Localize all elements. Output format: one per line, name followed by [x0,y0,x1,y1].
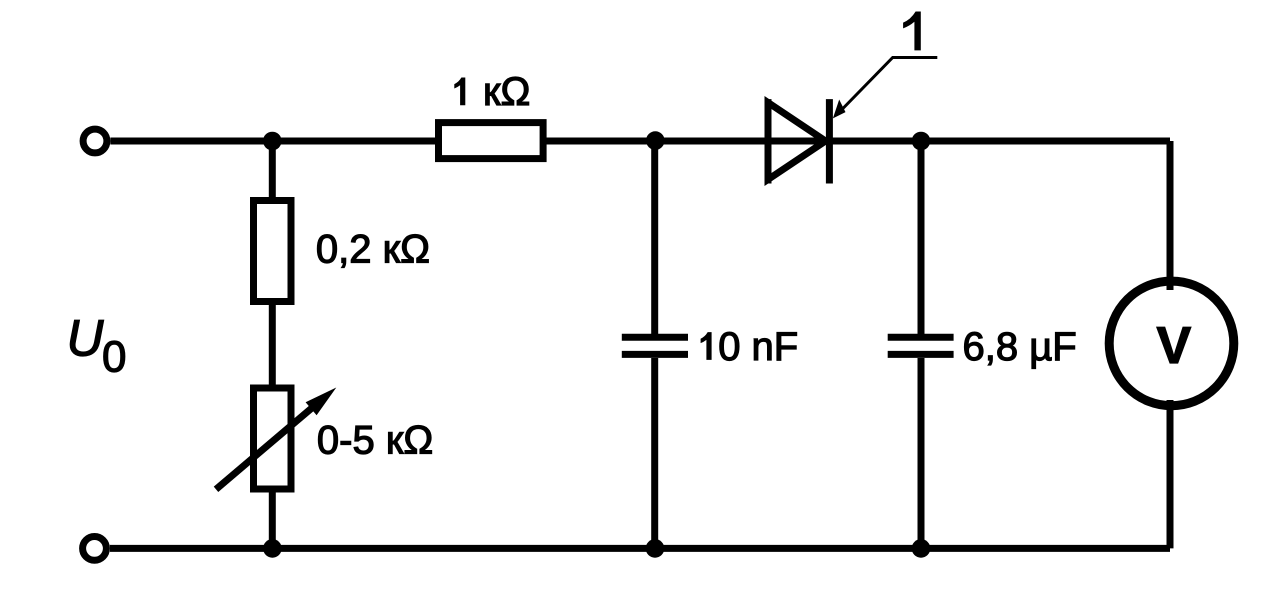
variable resistor arrow head [306,388,337,416]
node A top-left junction [263,132,282,151]
wire right vertical upper [1167,141,1174,290]
svg-text:0-5 кΩ: 0-5 кΩ [317,419,433,463]
wire below R3 [269,491,276,548]
node B top C1 junction [646,131,665,150]
terminal bottom-left [83,537,107,561]
resistor R1 1 kOhm [439,123,544,159]
diode VD1 triangle [768,103,826,180]
wire top rail left of R1 [110,138,437,145]
node F bottom C2 junction [912,539,931,558]
voltmeter PV1 circle [1109,281,1234,406]
wire right vertical lower [1167,400,1174,548]
label callout 1 [903,12,921,51]
callout leader line [838,58,937,114]
svg-text:V: V [1156,317,1191,375]
capacitor C1 plates [622,334,688,341]
capacitor C2 plates [888,334,954,341]
diode VD1 cathode bar [826,99,833,183]
resistor R2 0,2 kOhm [254,201,292,302]
wire bottom rail [110,545,1170,552]
node D bottom-left junction [263,539,282,558]
svg-text:0,2 кΩ: 0,2 кΩ [316,228,430,272]
node C top C2 junction [912,132,931,151]
capacitor C2 bottom lead [918,358,925,548]
resistor R3 variable 0-5 kOhm [254,388,292,489]
terminal top-left [83,129,107,153]
capacitor C2 top lead [918,141,925,334]
node E bottom C1 junction [646,539,665,558]
variable resistor arrow shaft [216,405,315,489]
callout leader arrow head [833,100,846,119]
svg-text:0: 0 [102,333,126,382]
svg-text:0 nF: 0 nF [718,325,798,369]
capacitor C1 bottom lead [651,358,658,548]
label 1 kOhm [454,78,465,106]
wire between R2 and R3 [269,303,276,386]
label 10 nF [701,332,712,360]
svg-text:кΩ: кΩ [483,70,530,114]
diode VD1 anode bar [765,99,772,183]
svg-text:U: U [67,309,105,366]
wire left branch upper stub [269,141,276,199]
capacitor C1 top lead [651,141,658,334]
svg-text:6,8 µF: 6,8 µF [963,325,1077,369]
wire top rail right of R1 [544,138,1170,145]
